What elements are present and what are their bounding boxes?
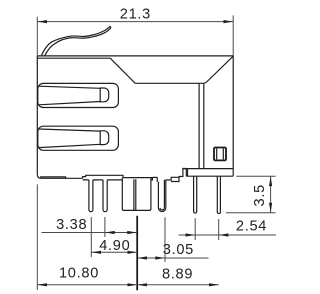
svg-text:4.90: 4.90 [99,238,130,254]
arrowhead 2.54 left [186,233,196,236]
EMI slot 1 finger taper bottom [39,102,100,105]
center post [122,178,151,211]
arrowhead 3.38 right [127,231,137,234]
arrowhead 3.5 bottom [269,203,272,213]
dimension line 10.80 and 8.89 [37,284,218,286]
svg-text:8.89: 8.89 [162,267,193,283]
shield leg J-hook outer [158,180,165,212]
square hole inner right [222,149,224,160]
EMI slot 2 finger tip [100,131,109,145]
svg-text:3.05: 3.05 [163,242,194,258]
body outline: right edge [232,56,234,169]
EMI slot 2 finger taper bottom [39,144,100,147]
body outline: left edge [37,56,82,178]
body outline: top front edge [38,57,111,59]
arrowhead 8.89 left [137,283,147,286]
square hole inner left [216,149,218,160]
arrowhead 3.38 left [105,231,115,234]
center post seam 1 [133,179,135,210]
arrowhead 4.90 left [92,251,102,254]
arrowhead 2.54 right [219,233,229,236]
EMI slot 1 finger taper top [39,86,100,88]
arrowhead 10.80 right [128,283,138,286]
extension line J-hook [164,217,166,262]
arrowhead 10.80 left [38,283,48,286]
extension line 3.5 bottom [226,212,276,214]
extension line pin1 [90,217,92,257]
arrowhead 3.05 right [155,256,165,259]
svg-text:3.38: 3.38 [56,217,87,233]
center post seam 2 [135,179,137,210]
square hole outer [214,148,226,161]
extension line 3.5 top [236,175,275,177]
shield leg J-hook inner [160,180,164,210]
arrowhead 3.05 left [137,256,147,259]
flange right edge [232,169,234,177]
dimension line 2.54 [179,234,277,236]
extension line pin A [194,218,196,240]
arrowhead 21.3 right [224,20,234,23]
dimension line 3.05 [137,257,208,259]
bottom lip detail [41,177,66,178]
extension line pin2 [104,217,106,237]
pin 2 [103,180,107,212]
bottom step up [83,175,153,178]
flange bottom [186,175,233,177]
extension line post center (thick) [136,216,138,290]
arrowhead 4.90 right [128,251,138,254]
parting line 2 [203,83,205,168]
pin B [217,176,220,213]
bottom step right of J-hook [166,169,187,182]
dimension line 3.5 vertical [270,176,272,212]
dimension line 3.38 [42,232,137,234]
svg-text:10.80: 10.80 [59,266,99,282]
latch wire [41,27,111,57]
arrowhead 21.3 left [38,20,48,23]
extension line pin B [218,219,220,240]
shield tab bump [151,177,157,182]
svg-text:3.5: 3.5 [252,184,268,206]
arrowhead 3.5 top [269,177,272,187]
flange left inner edge [187,169,189,177]
EMI slot 1 finger tip [100,88,109,102]
body outline: left chamfer [110,58,135,83]
extension line left (21.3) [36,17,38,56]
svg-text:21.3: 21.3 [120,7,151,23]
svg-text:2.54: 2.54 [236,219,267,235]
dimension line 4.90 [91,251,137,253]
extension line body left bottom [36,184,38,290]
arrowhead 8.89 right [209,283,219,286]
bar bottom segments [83,179,123,181]
dimension line 21.3 [37,21,233,23]
parting line 1 [198,83,200,168]
EMI slot 1 outer [38,83,119,107]
EMI slot 2 outer [38,126,119,150]
flange top [183,168,233,170]
EMI slot 2 finger taper top [39,129,100,131]
body outline: top back edge [37,55,233,57]
extension line right (21.3) [232,15,234,56]
pin 1 [89,180,93,212]
body outline: front top horizontal [135,56,233,83]
pin A [194,176,197,213]
